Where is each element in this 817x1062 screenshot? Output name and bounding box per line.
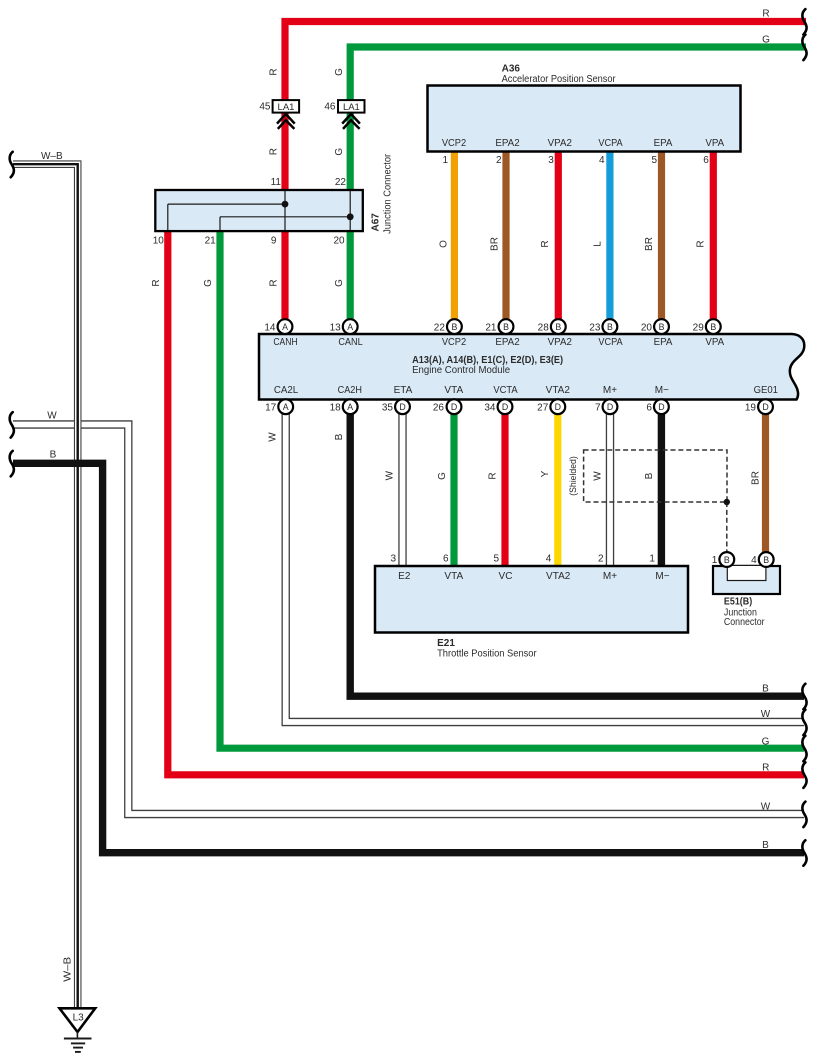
- wire R (A67 pin 10 to right edge): [168, 230, 804, 775]
- ground bars: [64, 1032, 92, 1052]
- wire R (ECM 34 VCTA to E21 pin 5): [501, 413, 508, 566]
- svg-text:13: 13: [330, 322, 342, 333]
- wire W-B (left harness to ground): [13, 164, 78, 1008]
- wire B (ECM 18 CA2H to right edge): [350, 413, 804, 696]
- svg-text:22: 22: [335, 177, 347, 188]
- svg-text:M−: M−: [655, 571, 669, 582]
- ECM terminal 13(A): [330, 319, 358, 334]
- svg-text:EPA2: EPA2: [495, 138, 520, 149]
- wire G top (CANL to right edge): [350, 47, 806, 100]
- wire Y (ECM 27 VTA2 to E21 pin 4): [554, 413, 561, 566]
- svg-text:20: 20: [641, 322, 653, 333]
- svg-text:11: 11: [271, 177, 282, 188]
- svg-text:VCPA: VCPA: [598, 138, 623, 149]
- svg-text:R: R: [762, 762, 769, 773]
- svg-text:VCP2: VCP2: [442, 337, 467, 348]
- wire R (A36 pin 6 to ECM 29): [710, 150, 717, 320]
- svg-text:R: R: [696, 240, 707, 247]
- svg-text:B: B: [762, 840, 769, 851]
- svg-text:4: 4: [546, 554, 552, 565]
- svg-text:4: 4: [599, 155, 605, 166]
- svg-text:A36: A36: [502, 64, 521, 75]
- wire W (ECM 35 ETA to E21 pin 3, hollow): [398, 413, 406, 566]
- svg-text:B: B: [334, 433, 345, 440]
- svg-text:E2: E2: [398, 571, 411, 582]
- rotated labels R G R G below A67: [151, 279, 345, 287]
- svg-text:28: 28: [538, 322, 550, 333]
- svg-text:M+: M+: [603, 571, 617, 582]
- E51 terminal 1(B): [712, 552, 734, 567]
- sensor A36 box: [428, 86, 741, 152]
- svg-text:21: 21: [205, 236, 217, 247]
- svg-text:35: 35: [382, 402, 394, 413]
- break squiggle left W: [10, 412, 14, 438]
- rotated label W-B near ground: [62, 956, 73, 981]
- connector LA1 45: [259, 100, 299, 113]
- svg-text:W: W: [385, 470, 396, 480]
- wire G (A67 pin 21 to right edge): [220, 230, 804, 748]
- svg-text:3: 3: [548, 155, 554, 166]
- shield dashed box: [584, 450, 727, 502]
- svg-text:(Shielded): (Shielded): [568, 456, 579, 496]
- svg-text:L3: L3: [73, 1012, 85, 1023]
- svg-text:W–B: W–B: [41, 151, 63, 162]
- svg-text:G: G: [334, 279, 345, 287]
- wire BR (A36 pin 5 to ECM 20): [658, 150, 665, 320]
- break squiggle right G top: [802, 35, 806, 61]
- svg-text:GE01: GE01: [754, 385, 779, 396]
- svg-text:ETA: ETA: [394, 385, 413, 396]
- svg-text:B: B: [503, 322, 509, 332]
- break squiggle left W-B: [10, 152, 14, 178]
- svg-text:VPA: VPA: [705, 337, 724, 348]
- svg-text:46: 46: [324, 102, 336, 113]
- ECM terminal 21(B): [485, 319, 513, 334]
- wire W (ECM 17 CA2L to right edge, hollow): [286, 413, 804, 722]
- ECM terminal 7(D): [595, 399, 617, 414]
- wire G (ECM 26 VTA to E21 pin 6): [450, 413, 457, 566]
- rotated labels R G above LA1: [269, 68, 345, 76]
- chevron LA1 45: [277, 114, 295, 129]
- svg-text:A: A: [282, 322, 288, 332]
- svg-text:1: 1: [712, 555, 718, 566]
- wire G (A67 pin 20 to ECM 13): [347, 230, 354, 320]
- svg-text:E21: E21: [437, 638, 455, 649]
- svg-text:1: 1: [649, 554, 655, 565]
- svg-text:W: W: [592, 471, 603, 481]
- svg-text:B: B: [659, 322, 665, 332]
- svg-text:W: W: [47, 411, 57, 422]
- svg-text:29: 29: [693, 322, 705, 333]
- wire O (A36 pin 1 to ECM 22): [451, 150, 458, 320]
- junction dot A67 pin11 bus: [282, 201, 289, 208]
- svg-text:W: W: [268, 432, 279, 442]
- junction dot A67 pin22 bus: [347, 213, 354, 220]
- junction connector E51(B) box: [713, 566, 780, 594]
- svg-text:CANL: CANL: [338, 337, 363, 348]
- svg-text:3: 3: [390, 554, 396, 565]
- chevron LA1 46: [342, 114, 360, 129]
- wire R top (CANH to right edge): [285, 22, 806, 101]
- sensor E21 box: [375, 566, 688, 633]
- svg-text:M+: M+: [603, 385, 617, 396]
- ECM box: [259, 334, 804, 400]
- svg-text:20: 20: [333, 236, 345, 247]
- rotated wire labels ECM to E21: [385, 456, 762, 496]
- svg-text:R: R: [269, 68, 280, 75]
- break squiggle left B: [10, 451, 14, 477]
- junction dot shield: [724, 499, 730, 505]
- svg-text:D: D: [658, 402, 664, 412]
- E51 terminal 4(B): [751, 552, 773, 567]
- svg-text:B: B: [644, 472, 655, 479]
- svg-text:VPA2: VPA2: [548, 138, 573, 149]
- svg-text:VCP2: VCP2: [442, 138, 467, 149]
- svg-text:G: G: [334, 68, 345, 76]
- ECM terminal 19(D): [745, 399, 773, 414]
- wire W (ECM 7 M+ to E21 pin 2, hollow): [606, 413, 614, 566]
- rotated wire labels below ECM row A: [268, 432, 345, 442]
- A36 pin numbers: [442, 155, 709, 166]
- svg-text:VTA: VTA: [444, 385, 463, 396]
- svg-text:BR: BR: [644, 237, 655, 251]
- svg-text:B: B: [710, 322, 716, 332]
- wire color labels top: [762, 9, 770, 46]
- ECM terminal 27(D): [537, 399, 565, 414]
- ECM terminal 6(D): [646, 399, 668, 414]
- ECM terminal 17(A): [265, 399, 293, 414]
- shield drain dashed wire to E51 pin 1: [726, 502, 728, 553]
- A67 internal bus wires: [168, 191, 350, 230]
- label A36: [502, 64, 617, 86]
- right edge wire labels: [761, 683, 771, 851]
- svg-text:4: 4: [751, 555, 757, 566]
- ECM terminal 28(B): [538, 319, 566, 334]
- wire B (ECM 6 M- to E21 pin 1): [658, 413, 665, 566]
- svg-text:21: 21: [485, 322, 497, 333]
- svg-text:CA2L: CA2L: [274, 385, 299, 396]
- svg-text:19: 19: [745, 402, 757, 413]
- rotated labels R G below LA1: [269, 148, 345, 156]
- svg-text:14: 14: [264, 322, 276, 333]
- svg-text:B: B: [607, 322, 613, 332]
- svg-text:5: 5: [651, 155, 657, 166]
- ECM terminal 22(B): [434, 319, 462, 334]
- left edge wire labels: [41, 151, 63, 461]
- svg-text:VPA: VPA: [705, 138, 724, 149]
- wire R (A67 pin 9 to ECM 14): [281, 230, 288, 320]
- label E21: [437, 638, 537, 660]
- ECM bottom pin name labels: [274, 385, 779, 396]
- ECM terminal 35(D): [382, 399, 410, 414]
- svg-text:G: G: [762, 737, 770, 748]
- svg-text:Engine Control Module: Engine Control Module: [412, 365, 510, 376]
- svg-text:D: D: [762, 402, 768, 412]
- svg-text:2: 2: [598, 554, 604, 565]
- svg-text:BR: BR: [751, 471, 762, 485]
- svg-text:Accelerator Position Sensor: Accelerator Position Sensor: [502, 74, 617, 85]
- break squiggle right B: [802, 684, 806, 710]
- svg-text:W: W: [761, 709, 771, 720]
- ECM terminal 14(A): [264, 319, 292, 334]
- svg-text:34: 34: [484, 402, 496, 413]
- svg-text:D: D: [451, 402, 457, 412]
- svg-text:A67: A67: [371, 213, 382, 232]
- svg-text:6: 6: [703, 155, 709, 166]
- svg-text:A: A: [283, 402, 289, 412]
- wire BR (A36 pin 2 to ECM 21): [502, 150, 509, 320]
- E51 internal notch: [727, 565, 766, 580]
- rotated wire labels A36 to ECM: [438, 237, 706, 251]
- svg-text:6: 6: [443, 554, 449, 565]
- break squiggle right R top: [802, 9, 806, 34]
- svg-text:A: A: [347, 402, 353, 412]
- svg-text:R: R: [151, 279, 162, 286]
- svg-text:26: 26: [433, 402, 445, 413]
- svg-text:R: R: [488, 472, 499, 479]
- svg-text:B: B: [762, 683, 769, 694]
- svg-text:B: B: [763, 555, 769, 565]
- svg-text:LA1: LA1: [343, 102, 360, 113]
- svg-text:G: G: [334, 148, 345, 156]
- E21 pin numbers: [390, 554, 655, 565]
- svg-text:Throttle Position Sensor: Throttle Position Sensor: [437, 649, 537, 660]
- svg-text:W: W: [761, 802, 771, 813]
- svg-text:B: B: [451, 322, 457, 332]
- label E51(B): [724, 597, 765, 629]
- svg-text:R: R: [269, 148, 280, 155]
- svg-text:B: B: [555, 322, 561, 332]
- svg-text:Connector: Connector: [724, 617, 765, 628]
- svg-text:EPA: EPA: [654, 337, 673, 348]
- svg-text:9: 9: [271, 236, 277, 247]
- wire G (LA1 to A67 pin 22): [347, 113, 354, 191]
- svg-text:18: 18: [330, 402, 342, 413]
- svg-text:G: G: [437, 472, 448, 480]
- svg-text:M−: M−: [655, 385, 669, 396]
- svg-text:O: O: [438, 240, 449, 248]
- E21 pin name labels: [398, 571, 670, 582]
- break squiggle right G: [802, 736, 806, 762]
- svg-text:5: 5: [493, 554, 499, 565]
- svg-text:G: G: [762, 35, 770, 46]
- wire B (left harness, thick black): [13, 463, 804, 852]
- svg-text:R: R: [762, 9, 769, 20]
- svg-text:VCTA: VCTA: [493, 385, 518, 396]
- wire W (left harness, hollow white): [13, 425, 804, 815]
- ECM terminal 29(B): [693, 319, 721, 334]
- svg-text:1: 1: [442, 155, 448, 166]
- svg-text:D: D: [399, 402, 405, 412]
- svg-text:7: 7: [595, 402, 601, 413]
- svg-text:VTA2: VTA2: [546, 385, 571, 396]
- svg-text:17: 17: [265, 402, 277, 413]
- svg-text:VC: VC: [499, 571, 513, 582]
- svg-text:VTA: VTA: [444, 571, 463, 582]
- svg-text:LA1: LA1: [278, 102, 295, 113]
- svg-text:27: 27: [537, 402, 549, 413]
- connector LA1 46: [324, 100, 364, 113]
- wire L (A36 pin 4 to ECM 23): [606, 150, 613, 320]
- svg-text:BR: BR: [489, 237, 500, 251]
- svg-text:E51(B): E51(B): [724, 597, 752, 608]
- break squiggle right R: [802, 762, 806, 788]
- junction connector A67: [155, 190, 362, 231]
- svg-text:VTA2: VTA2: [546, 571, 571, 582]
- svg-text:CANH: CANH: [273, 337, 297, 348]
- svg-text:VPA2: VPA2: [548, 337, 573, 348]
- pin labels A67: [153, 177, 347, 247]
- svg-text:R: R: [540, 240, 551, 247]
- svg-text:10: 10: [153, 236, 165, 247]
- wire R (LA1 to A67 pin 11): [281, 113, 288, 191]
- ECM title: [412, 355, 563, 376]
- break squiggle right B low: [802, 840, 806, 866]
- svg-text:Y: Y: [540, 470, 551, 477]
- svg-text:D: D: [607, 402, 613, 412]
- ground L3: [60, 1008, 96, 1032]
- svg-text:R: R: [269, 279, 280, 286]
- svg-text:B: B: [50, 450, 57, 461]
- ECM terminal 26(D): [433, 399, 462, 414]
- ECM terminal 18(A): [330, 399, 358, 414]
- svg-text:Junction Connector: Junction Connector: [383, 153, 394, 234]
- wire R (A36 pin 3 to ECM 28): [555, 150, 562, 320]
- label A67: [371, 153, 394, 234]
- svg-text:A: A: [347, 322, 353, 332]
- ECM top pin name labels: [273, 337, 724, 348]
- svg-text:D: D: [502, 402, 508, 412]
- A36 pin name labels: [442, 138, 725, 149]
- svg-text:45: 45: [259, 102, 271, 113]
- svg-text:VCPA: VCPA: [598, 337, 623, 348]
- svg-text:G: G: [203, 279, 214, 287]
- ECM terminal 23(B): [589, 319, 617, 334]
- svg-text:B: B: [724, 555, 730, 565]
- svg-text:EPA: EPA: [654, 138, 673, 149]
- svg-text:2: 2: [496, 155, 502, 166]
- svg-text:CA2H: CA2H: [338, 385, 362, 396]
- wire BR (ECM 19 GE01 to E51 pin 4): [762, 413, 769, 553]
- ECM terminal 20(B): [641, 319, 669, 334]
- svg-text:W–B: W–B: [62, 956, 73, 981]
- svg-text:D: D: [555, 402, 561, 412]
- svg-text:L: L: [592, 241, 603, 247]
- break squiggle right W low: [802, 802, 806, 828]
- svg-text:EPA2: EPA2: [495, 337, 520, 348]
- svg-text:6: 6: [646, 402, 652, 413]
- svg-text:22: 22: [434, 322, 446, 333]
- svg-text:23: 23: [589, 322, 601, 333]
- break squiggle right W: [802, 710, 806, 736]
- ECM terminal 34(D): [484, 399, 512, 414]
